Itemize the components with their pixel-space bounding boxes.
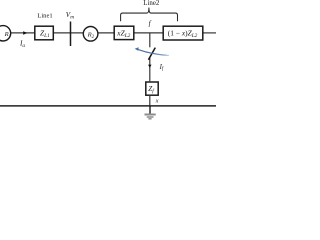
svg-text:Ia: Ia: [19, 40, 25, 50]
svg-text:Line2: Line2: [143, 0, 160, 7]
svg-text:Line1: Line1: [37, 12, 52, 19]
svg-text:f: f: [149, 20, 152, 28]
svg-text:Vm: Vm: [66, 11, 74, 21]
svg-text:x: x: [155, 98, 159, 104]
svg-text:If: If: [159, 64, 164, 72]
